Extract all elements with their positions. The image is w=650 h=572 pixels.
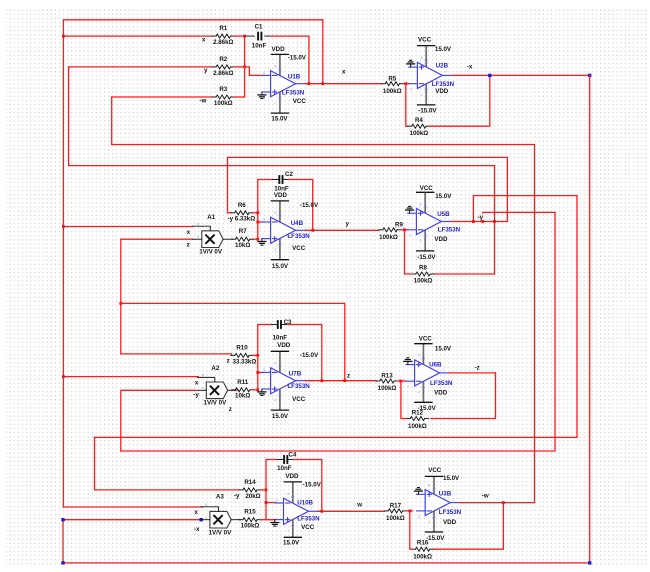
VDD supply bar U3B	[425, 531, 443, 533]
svg-text:R14: R14	[244, 479, 256, 486]
op-amp U7B	[262, 351, 305, 410]
svg-text:4: 4	[274, 101, 276, 105]
resistor R2	[212, 56, 234, 77]
svg-text:7: 7	[453, 498, 455, 502]
wire U7B output to R13	[305, 380, 376, 382]
junction R9/R8 at U5B input	[403, 228, 406, 231]
wire -y branch c down and across	[121, 212, 555, 451]
svg-text:100kΩ: 100kΩ	[241, 523, 260, 530]
svg-text:6: 6	[263, 368, 265, 372]
svg-text:R7: R7	[239, 228, 247, 235]
svg-text:C1: C1	[255, 23, 263, 30]
wire A2 to R11	[232, 389, 237, 391]
svg-text:4: 4	[418, 391, 420, 395]
wire -x to A3	[63, 519, 200, 521]
resistor R1	[212, 25, 234, 46]
wire -y output run	[451, 221, 508, 223]
ground at U5B non-inverting input	[405, 206, 414, 213]
node -y label	[477, 213, 488, 221]
VCC supply bar U7B	[271, 409, 289, 411]
svg-text:-w: -w	[482, 493, 489, 500]
resistor R10	[231, 344, 256, 365]
junction R7/summing node	[256, 238, 259, 241]
svg-text:R4: R4	[415, 117, 423, 124]
svg-text:R2: R2	[219, 56, 227, 63]
ground at U3B non-inverting input	[414, 488, 423, 495]
junction -x at A3 input	[200, 518, 203, 521]
svg-text:-y: -y	[234, 493, 240, 500]
svg-text:VCC: VCC	[420, 185, 434, 192]
svg-text:-15.0V: -15.0V	[426, 535, 445, 542]
wire -z to R12 feedback	[431, 373, 496, 419]
svg-text:R16: R16	[417, 540, 429, 547]
wire R1 to summing node	[234, 35, 244, 37]
svg-text:R8: R8	[419, 264, 427, 271]
wire -y to R6 run	[228, 157, 508, 221]
junction R10/summing node	[256, 354, 259, 357]
svg-text:20kΩ: 20kΩ	[245, 493, 260, 500]
svg-text:6: 6	[276, 499, 278, 503]
svg-text:x: x	[195, 380, 199, 387]
svg-text:6: 6	[263, 71, 265, 75]
svg-text:10nF: 10nF	[277, 465, 292, 472]
svg-text:VDD: VDD	[434, 389, 448, 396]
svg-text:1V/V 0V: 1V/V 0V	[209, 530, 233, 537]
svg-text:R15: R15	[244, 509, 256, 516]
svg-text:100kΩ: 100kΩ	[383, 88, 402, 95]
svg-text:15.0V: 15.0V	[272, 263, 289, 270]
wire R10 to summing node	[253, 354, 258, 356]
svg-text:100kΩ: 100kΩ	[379, 234, 398, 241]
op-amp U3B	[417, 476, 460, 532]
ground at U6B non-inverting input	[403, 358, 412, 365]
op-amp U6B	[406, 344, 449, 403]
wire -w to R16 feedback	[434, 503, 504, 550]
wire summing node to C4	[266, 459, 278, 461]
junction -y branch b	[472, 220, 475, 223]
svg-text:A2: A2	[211, 365, 219, 372]
svg-text:U5B: U5B	[437, 211, 450, 218]
svg-text:y: y	[346, 221, 350, 228]
svg-text:8: 8	[274, 65, 276, 69]
wire R13 to U6B inverting input	[398, 380, 406, 382]
wire A1 to R7	[231, 238, 234, 240]
svg-text:100kΩ: 100kΩ	[414, 278, 433, 285]
VDD supply bar U10B	[284, 481, 302, 483]
junction -y/R8/R2-run	[493, 220, 496, 223]
junction top-run riser on x output	[321, 82, 324, 85]
resistor R5	[381, 75, 403, 95]
svg-text:-y: -y	[193, 391, 199, 398]
svg-text:-x: -x	[194, 526, 200, 533]
resistor R3	[212, 86, 234, 107]
svg-text:100kΩ: 100kΩ	[378, 385, 397, 392]
svg-text:VCC: VCC	[428, 467, 442, 474]
svg-text:8: 8	[420, 202, 422, 206]
svg-text:-15.0V: -15.0V	[300, 202, 319, 209]
svg-text:VDD: VDD	[443, 519, 457, 526]
svg-text:-15.0V: -15.0V	[417, 254, 436, 261]
wire x-net: top feedback run and left vertical bus	[63, 20, 322, 507]
svg-text:VDD: VDD	[272, 46, 286, 53]
op-amp U1B	[262, 54, 305, 113]
wire z to R10	[121, 354, 232, 356]
wire R16 to U3B inverting input	[410, 511, 412, 549]
op-amp U2B	[409, 46, 452, 105]
svg-text:VDD: VDD	[435, 88, 449, 95]
svg-text:LF353N: LF353N	[438, 227, 461, 234]
svg-text:VCC: VCC	[301, 524, 315, 531]
wire R3 to summing node	[234, 96, 244, 98]
svg-text:15.0V: 15.0V	[435, 46, 452, 53]
svg-text:z: z	[227, 358, 230, 365]
svg-text:6: 6	[407, 385, 409, 389]
wire R7 to summing node	[254, 238, 258, 240]
svg-text:x: x	[202, 36, 206, 43]
wire x output riser to top run	[322, 20, 324, 84]
svg-text:-15.0V: -15.0V	[303, 482, 322, 489]
svg-text:R9: R9	[395, 222, 403, 229]
svg-text:R13: R13	[381, 373, 393, 380]
wire R14 to summing node	[261, 489, 266, 491]
VCC supply bar U1B	[271, 112, 289, 114]
svg-text:100kΩ: 100kΩ	[410, 130, 429, 137]
resistor R9	[379, 222, 404, 242]
wire U10B output to R17	[318, 510, 384, 512]
svg-text:x: x	[202, 386, 204, 390]
junction R4 feedback on -x output	[488, 74, 491, 77]
svg-text:VDD: VDD	[285, 473, 299, 480]
svg-text:-x: -x	[467, 64, 473, 71]
svg-text:x: x	[195, 509, 199, 516]
svg-text:-15.0V: -15.0V	[300, 352, 319, 359]
svg-text:7: 7	[442, 368, 444, 372]
VDD supply bar U5B	[416, 250, 434, 252]
resistor R4	[408, 117, 430, 137]
capacitor C2	[273, 171, 294, 192]
svg-text:7: 7	[311, 507, 313, 511]
resistor R12	[406, 409, 428, 430]
op-amp U4B	[262, 201, 305, 260]
svg-text:x: x	[342, 69, 346, 76]
svg-text:VCC: VCC	[293, 98, 307, 105]
wire summing node to U1B inverting input	[245, 67, 263, 76]
svg-text:x: x	[187, 229, 191, 236]
wire C1 to U1B output (integrator feedback)	[271, 36, 309, 84]
svg-text:8: 8	[421, 56, 423, 60]
junction z line	[119, 302, 122, 305]
svg-text:100kΩ: 100kΩ	[413, 554, 432, 561]
svg-text:C2: C2	[285, 171, 293, 178]
svg-text:10nF: 10nF	[273, 334, 288, 341]
resistor R14	[239, 479, 261, 500]
svg-text:2.86kΩ: 2.86kΩ	[213, 39, 233, 46]
junction -x output corner	[588, 74, 591, 77]
svg-text:8: 8	[428, 483, 430, 487]
resistor R17	[384, 503, 406, 522]
wire -x right vertical	[589, 75, 591, 563]
resistor R16	[412, 540, 434, 561]
svg-text:10kΩ: 10kΩ	[235, 393, 250, 400]
svg-text:100kΩ: 100kΩ	[408, 423, 427, 430]
wire R4 feedback to U2B output	[430, 75, 490, 126]
junction R2/summing node	[243, 66, 246, 69]
wire -y branch to R14 run	[473, 196, 577, 222]
junction inverting tap row3	[256, 371, 259, 374]
wire U2B input down to R4	[406, 84, 408, 127]
svg-text:U10B: U10B	[297, 499, 313, 506]
resistor R7	[232, 228, 254, 249]
op-amp U5B	[408, 192, 451, 251]
junction R14/summing node	[265, 489, 268, 492]
svg-text:4: 4	[421, 93, 423, 97]
svg-text:y: y	[204, 67, 208, 74]
svg-text:4: 4	[428, 520, 430, 524]
ground at U4B non-inverting input	[257, 239, 266, 246]
wire -y riser / R8 drop	[494, 166, 496, 274]
resistor R13	[376, 373, 398, 393]
junction C3 feedback on z output	[320, 379, 323, 382]
junction -y branch c	[481, 220, 484, 223]
wire x to A1 first input	[63, 226, 193, 228]
svg-text:U7B: U7B	[289, 371, 302, 378]
wire -y branch b down and across	[95, 196, 578, 438]
svg-text:R10: R10	[236, 344, 248, 351]
wire R8 to U5B inverting input	[405, 230, 413, 274]
resistor R15	[239, 509, 261, 530]
svg-text:-z: -z	[475, 365, 480, 372]
svg-text:VCC: VCC	[418, 37, 432, 44]
wire R17 to U3B inverting input	[406, 510, 412, 512]
wire summing node to C3	[258, 324, 272, 326]
wire z loop from U7B output	[121, 303, 345, 380]
wire summing node vertical row2	[257, 180, 259, 240]
svg-text:15.0V: 15.0V	[283, 540, 300, 547]
wire -y branch to A2 run	[483, 212, 555, 221]
junction R16 feedback on -w output	[502, 501, 505, 504]
svg-text:U3B: U3B	[439, 490, 452, 497]
VCC supply bar U3B	[425, 475, 443, 477]
ground at U10B non-inverting input	[270, 520, 279, 527]
svg-text:A1: A1	[207, 214, 215, 221]
junction x-bus/R1	[62, 35, 65, 38]
junction -x riser top corner	[61, 518, 64, 521]
wire -x bottom run	[63, 562, 590, 564]
svg-text:6: 6	[409, 234, 411, 238]
svg-text:1V/V 0V: 1V/V 0V	[199, 249, 223, 256]
svg-text:15.0V: 15.0V	[272, 413, 289, 420]
wire tap to U7B inverting input	[258, 372, 262, 374]
svg-text:4: 4	[287, 529, 289, 533]
wire -x left riser	[62, 520, 64, 563]
junction inverting tap row2	[256, 221, 259, 224]
wire tap to U4B inverting input	[258, 221, 262, 223]
svg-text:-y: -y	[228, 216, 234, 223]
svg-text:LF353N: LF353N	[432, 81, 455, 88]
ground at U7B non-inverting input	[257, 389, 266, 396]
svg-text:7: 7	[445, 71, 447, 75]
capacitor C1	[245, 23, 271, 49]
junction R17/R16 at U3B input	[408, 510, 411, 513]
ground at U1B non-inverting input	[257, 92, 266, 99]
wire summing node vertical	[244, 36, 246, 97]
svg-text:15.0V: 15.0V	[271, 115, 288, 122]
wire R5 to U2B inverting input	[403, 83, 409, 85]
svg-text:U6B: U6B	[429, 361, 442, 368]
svg-text:LF353N: LF353N	[282, 90, 305, 97]
svg-text:y: y	[197, 222, 199, 226]
capacitor C3	[271, 319, 292, 341]
svg-text:w: w	[356, 501, 362, 508]
wire -y to R2	[69, 66, 213, 68]
resistor R8	[412, 264, 434, 284]
svg-text:100kΩ: 100kΩ	[386, 515, 405, 522]
capacitor C4	[277, 452, 297, 472]
svg-text:LF353N: LF353N	[297, 516, 320, 523]
svg-text:LF353N: LF353N	[287, 233, 310, 240]
svg-text:6: 6	[410, 88, 412, 92]
resistor R6	[231, 202, 255, 223]
op-amp U10B	[275, 482, 318, 537]
wire C4 to U10B output (integrator feedback)	[294, 460, 322, 512]
junction C4 feedback on w output	[320, 510, 323, 513]
wire R6 to summing node	[253, 212, 258, 214]
wire summing node to C2	[258, 179, 273, 181]
junction C1 feedback on x output	[308, 82, 311, 85]
wire R12 to U6B inverting input	[401, 381, 407, 419]
svg-text:R5: R5	[388, 75, 396, 82]
svg-text:A3: A3	[216, 493, 224, 500]
svg-text:LF353N: LF353N	[287, 383, 310, 390]
wire -w riser to R3	[111, 97, 113, 145]
svg-text:10kΩ: 10kΩ	[235, 242, 250, 249]
svg-text:-w: -w	[200, 97, 207, 104]
wire C2 to U4B output (integrator feedback)	[289, 180, 313, 231]
svg-text:y: y	[205, 503, 207, 507]
svg-text:VCC: VCC	[419, 335, 433, 342]
wire R15 to node	[261, 519, 266, 521]
wire -y branch c to A2	[121, 390, 196, 451]
svg-text:VCC: VCC	[292, 245, 306, 252]
svg-text:R12: R12	[412, 409, 424, 416]
VCC supply bar U2B	[417, 45, 435, 47]
junction -x bottom right corner	[588, 561, 591, 564]
svg-text:10nF: 10nF	[252, 43, 267, 50]
wire -w output run	[460, 502, 535, 504]
svg-text:6: 6	[263, 218, 265, 222]
VDD supply bar U6B	[414, 401, 432, 403]
multiplier A2	[197, 373, 237, 398]
svg-text:VDD: VDD	[434, 236, 448, 243]
VDD supply bar U2B	[417, 104, 435, 106]
wire A3 to R15	[239, 519, 240, 521]
wire U4B output to R9	[305, 229, 379, 231]
VCC supply bar U5B	[416, 191, 434, 193]
svg-text:z: z	[347, 372, 350, 379]
wire -w feedback run	[112, 145, 535, 503]
svg-text:z: z	[229, 406, 232, 413]
svg-text:4: 4	[274, 398, 276, 402]
svg-text:4: 4	[274, 248, 276, 252]
VDD supply bar U7B	[271, 350, 289, 352]
svg-text:1V/V 0V: 1V/V 0V	[204, 400, 228, 407]
svg-text:R1: R1	[219, 25, 227, 32]
wire z to A1 second input	[121, 238, 193, 240]
wire U1B output to R5	[305, 83, 381, 85]
svg-text:2.86kΩ: 2.86kΩ	[213, 70, 233, 77]
wire -y run to R2 riser	[69, 67, 495, 166]
svg-text:8: 8	[287, 492, 289, 496]
VCC supply bar U10B	[284, 536, 302, 538]
svg-text:-15.0V: -15.0V	[418, 107, 437, 114]
svg-text:15.0V: 15.0V	[435, 346, 452, 353]
svg-text:U2B: U2B	[436, 63, 449, 70]
junction z loop riser	[343, 379, 346, 382]
junction R13/R12 at U6B input	[400, 380, 403, 383]
VCC supply bar U4B	[271, 259, 289, 261]
VDD supply bar U1B	[271, 53, 289, 55]
ground at U2B non-inverting input	[406, 60, 415, 67]
svg-text:LF353N: LF353N	[439, 509, 462, 516]
svg-text:VDD: VDD	[274, 192, 288, 199]
svg-text:R3: R3	[219, 86, 227, 93]
svg-text:R6: R6	[238, 202, 246, 209]
junction x-bus to A1	[62, 225, 65, 228]
svg-text:y: y	[202, 373, 204, 377]
junction R5/R4 at U2B input	[404, 82, 407, 85]
junction R6/summing node	[256, 211, 259, 214]
multiplier A1	[193, 222, 233, 247]
wire -z output run	[449, 372, 496, 374]
svg-text:z: z	[187, 242, 190, 249]
resistor R11	[232, 379, 254, 400]
svg-text:6.33kΩ: 6.33kΩ	[235, 216, 255, 223]
wire summing node vertical row4	[266, 460, 275, 520]
junction R11/summing node	[256, 388, 259, 391]
VCC supply bar U6B	[414, 343, 432, 345]
wire -x output run	[452, 74, 590, 76]
wire R8 feedback bottom	[434, 273, 495, 275]
svg-text:U4B: U4B	[291, 220, 304, 227]
svg-text:15.0V: 15.0V	[435, 193, 452, 200]
junction x-bus to A2	[62, 375, 65, 378]
svg-text:R17: R17	[390, 503, 402, 510]
svg-text:15.0V: 15.0V	[443, 475, 460, 482]
wire R9 to U5B inverting input	[401, 229, 408, 231]
wire tap to U10B inverting input	[266, 502, 275, 504]
wire z vertical to R10 level	[120, 239, 122, 354]
wire x-net to R1	[63, 35, 212, 37]
svg-text:6: 6	[418, 515, 420, 519]
wire R2 to summing node	[234, 66, 244, 68]
wire R11 to summing node	[254, 389, 258, 391]
junction R1/C1 summing node	[243, 35, 246, 38]
wire -w to R3	[112, 96, 213, 98]
svg-text:LF353N: LF353N	[430, 380, 453, 387]
svg-text:-15.0V: -15.0V	[288, 55, 307, 62]
junction -x bottom left corner	[61, 561, 64, 564]
svg-text:VDD: VDD	[277, 342, 291, 349]
svg-text:4: 4	[420, 239, 422, 243]
junction C2 feedback on y output	[311, 229, 314, 232]
svg-text:VCC: VCC	[292, 396, 306, 403]
wire C3 to U7B output (integrator feedback)	[287, 325, 321, 381]
junction inverting tap row4	[265, 501, 268, 504]
svg-text:C4: C4	[288, 452, 296, 459]
svg-text:-y: -y	[478, 214, 484, 221]
svg-text:x: x	[197, 235, 199, 239]
svg-text:100kΩ: 100kΩ	[214, 100, 233, 107]
